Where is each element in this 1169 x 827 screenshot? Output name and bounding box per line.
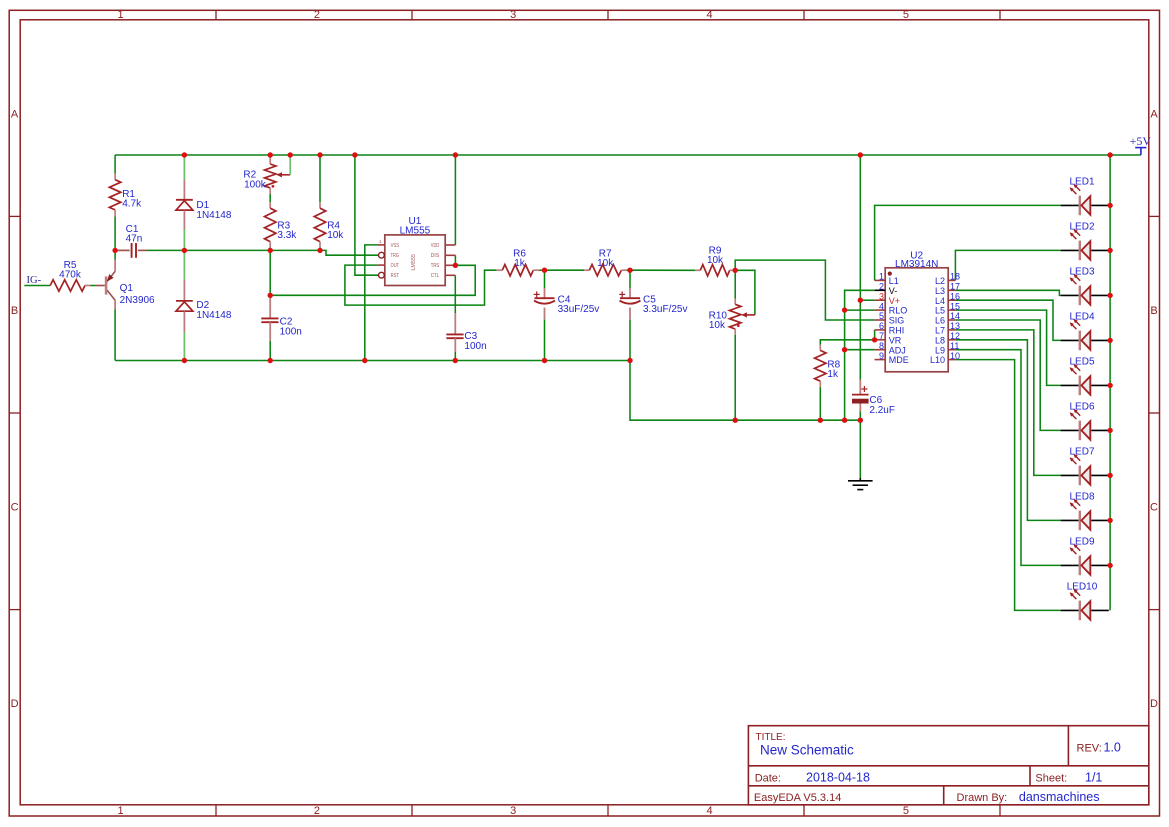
- svg-text:3: 3: [879, 291, 884, 301]
- svg-text:100k: 100k: [244, 179, 267, 190]
- svg-text:2018-04-18: 2018-04-18: [806, 770, 870, 784]
- svg-text:dansmachines: dansmachines: [1019, 790, 1100, 804]
- wire R2 wiper to rail: [289, 155, 291, 175]
- svg-text:L1: L1: [889, 276, 899, 286]
- svg-text:RST: RST: [391, 273, 400, 279]
- svg-text:Sheet:: Sheet:: [1035, 772, 1067, 784]
- svg-text:1k: 1k: [827, 369, 839, 380]
- wire R9 node down to R10: [734, 270, 736, 298]
- svg-text:L10: L10: [930, 355, 945, 365]
- svg-text:470k: 470k: [59, 270, 82, 281]
- wire R6 to C4 node: [539, 269, 544, 271]
- wire R8 bottom to gnd rail: [819, 387, 821, 420]
- wire C5 node to R9: [630, 269, 695, 271]
- wire C2 bottom to gnd rail: [269, 341, 271, 361]
- ground: [848, 478, 873, 490]
- svg-text:EasyEDA V5.3.14: EasyEDA V5.3.14: [754, 792, 841, 804]
- capacitor C3: [446, 313, 486, 352]
- svg-text:2: 2: [314, 805, 320, 817]
- wire +5V top rail: [115, 154, 1141, 156]
- svg-text:2: 2: [314, 9, 320, 21]
- wire R4 top from rail: [319, 155, 321, 202]
- wire C5 bottom to gnd rail: [629, 320, 631, 361]
- LED LED5: [1061, 356, 1109, 395]
- LED LED4: [1061, 311, 1109, 350]
- wire R4 bottom to TRG net: [319, 248, 321, 251]
- svg-text:13: 13: [950, 321, 960, 331]
- svg-text:LED4: LED4: [1069, 311, 1094, 322]
- svg-text:4: 4: [879, 301, 884, 311]
- svg-text:V+: V+: [889, 296, 900, 306]
- svg-text:LM3914N: LM3914N: [895, 259, 938, 270]
- wire L10 to LED10: [955, 360, 1060, 611]
- potentiometer R2 100k: [243, 157, 290, 195]
- svg-text:VR: VR: [889, 335, 902, 345]
- wire L2 to LED2: [955, 250, 1060, 280]
- LED LED2: [1061, 221, 1109, 260]
- svg-text:18: 18: [950, 272, 960, 282]
- svg-text:C: C: [11, 502, 19, 514]
- svg-text:ADJ: ADJ: [889, 345, 906, 355]
- svg-text:OUT: OUT: [391, 263, 400, 269]
- svg-text:10k: 10k: [709, 320, 726, 331]
- svg-text:VSS: VSS: [391, 243, 399, 249]
- svg-text:16: 16: [950, 291, 960, 301]
- wire R7 to C5 node: [627, 269, 630, 271]
- svg-text:LED1: LED1: [1069, 176, 1094, 187]
- potentiometer R10 10k: [709, 299, 755, 335]
- svg-text:4.7k: 4.7k: [122, 199, 142, 210]
- svg-text:TITLE:: TITLE:: [756, 732, 786, 743]
- svg-text:10: 10: [950, 351, 960, 361]
- svg-text:Q1: Q1: [120, 283, 134, 294]
- resistor R5: [50, 260, 90, 291]
- svg-text:LM555: LM555: [400, 226, 431, 237]
- svg-text:IG-: IG-: [27, 275, 42, 286]
- capacitor C5: [619, 270, 687, 319]
- svg-text:D: D: [11, 698, 19, 710]
- wire L4 to LED4: [955, 300, 1060, 340]
- wire VSS to gnd rail: [365, 245, 378, 361]
- svg-text:L6: L6: [935, 316, 945, 326]
- svg-text:LED6: LED6: [1069, 401, 1094, 412]
- diode D1 1N4148: [176, 157, 232, 251]
- svg-text:L7: L7: [935, 326, 945, 336]
- ic U2 LM3914N: [875, 250, 960, 372]
- svg-text:LM555: LM555: [411, 254, 417, 271]
- svg-text:6: 6: [879, 321, 884, 331]
- ic U1 LM555: [377, 216, 455, 286]
- svg-text:4: 4: [707, 9, 713, 21]
- svg-text:LED8: LED8: [1069, 491, 1094, 502]
- svg-text:5: 5: [903, 9, 909, 21]
- svg-text:New Schematic: New Schematic: [760, 743, 854, 758]
- wire TRG jog: [320, 250, 378, 255]
- svg-text:1: 1: [379, 239, 382, 244]
- wire L1 to LED1: [875, 205, 1061, 280]
- wire Q1 collector to gnd rail: [114, 310, 116, 361]
- svg-text:100n: 100n: [280, 326, 302, 337]
- wire IG- to R5: [24, 285, 50, 287]
- svg-text:17: 17: [950, 282, 960, 292]
- svg-text:1/1: 1/1: [1085, 770, 1102, 784]
- svg-text:10k: 10k: [707, 255, 724, 266]
- wire R3 bottom to TRG net: [269, 248, 271, 251]
- svg-text:CTL: CTL: [431, 273, 440, 279]
- svg-text:D: D: [1150, 698, 1158, 710]
- wire L9 to LED9: [955, 350, 1060, 566]
- capacitor C4: [534, 270, 600, 319]
- svg-text:LED9: LED9: [1069, 536, 1094, 547]
- svg-text:A: A: [11, 108, 19, 120]
- wire L7 to LED7: [955, 330, 1060, 476]
- resistor R1: [109, 174, 142, 217]
- svg-text:Date:: Date:: [755, 772, 781, 784]
- capacitor C6 2.2uF: [852, 380, 895, 416]
- resistor R4: [314, 202, 344, 247]
- transistor Q1 2N3906: [96, 260, 155, 310]
- svg-text:L4: L4: [935, 296, 945, 306]
- svg-text:RHI: RHI: [889, 326, 905, 336]
- svg-text:5: 5: [879, 311, 884, 321]
- wire TRS node to R3/C2 node: [270, 265, 475, 295]
- svg-text:L2: L2: [935, 276, 945, 286]
- svg-text:V-: V-: [889, 286, 898, 296]
- svg-text:VDD: VDD: [431, 243, 439, 249]
- svg-text:10k: 10k: [327, 230, 344, 241]
- wire R1 bottom to C1 node: [114, 217, 116, 251]
- svg-text:B: B: [1150, 305, 1157, 317]
- wire V+ rail to U2 and C6: [859, 155, 861, 380]
- LED LED6: [1061, 401, 1109, 440]
- LED LED10: [1061, 581, 1109, 620]
- wire C3 bottom to gnd rail: [454, 352, 456, 361]
- svg-text:8: 8: [879, 341, 884, 351]
- svg-text:1k: 1k: [514, 258, 526, 269]
- wire gnd rail to ground: [859, 420, 861, 478]
- title block: [748, 726, 1148, 805]
- wire RST to rail: [355, 155, 378, 275]
- svg-text:33uF/25v: 33uF/25v: [558, 304, 600, 315]
- svg-text:L3: L3: [935, 286, 945, 296]
- svg-text:47n: 47n: [126, 234, 143, 245]
- svg-text:L8: L8: [935, 335, 945, 345]
- svg-text:L5: L5: [935, 306, 945, 316]
- svg-text:LED7: LED7: [1069, 446, 1094, 457]
- wire R3 node down to C2/TRS node: [269, 250, 271, 295]
- svg-text:2: 2: [879, 282, 884, 292]
- svg-text:LED5: LED5: [1069, 356, 1094, 367]
- svg-text:LED2: LED2: [1069, 221, 1094, 232]
- wire C1 to R4 bottom / TRG net: [147, 249, 321, 251]
- wire LED anode +5V column: [1109, 155, 1111, 610]
- svg-text:REV:: REV:: [1077, 743, 1102, 755]
- svg-text:1N4148: 1N4148: [196, 310, 231, 321]
- svg-text:100n: 100n: [464, 341, 486, 352]
- svg-text:3.3k: 3.3k: [277, 230, 297, 241]
- wire ADJ pin link: [845, 349, 875, 351]
- wire R10 bottom to gnd rail: [734, 335, 736, 420]
- svg-text:C: C: [1150, 502, 1158, 514]
- wire V- net down: [845, 290, 875, 420]
- svg-text:1: 1: [118, 805, 124, 817]
- svg-text:TRS: TRS: [431, 263, 439, 269]
- svg-text:3: 3: [510, 805, 516, 817]
- svg-text:15: 15: [950, 301, 960, 311]
- wire C4 node to R7: [545, 269, 585, 271]
- resistor R9: [695, 246, 735, 276]
- svg-text:11: 11: [950, 341, 959, 351]
- resistor R6: [496, 248, 539, 276]
- diode D2 1N4148: [176, 250, 232, 360]
- svg-text:1.0: 1.0: [1104, 741, 1121, 755]
- svg-text:12: 12: [950, 331, 960, 341]
- wire C4 bottom to gnd rail: [544, 320, 546, 361]
- svg-text:3.3uF/25v: 3.3uF/25v: [643, 304, 687, 315]
- svg-text:A: A: [1150, 108, 1158, 120]
- LED LED9: [1061, 536, 1109, 575]
- wire L8 to LED8: [955, 340, 1060, 521]
- wire R1 top from rail: [114, 155, 116, 174]
- svg-text:DIS: DIS: [431, 253, 440, 259]
- capacitor C2: [261, 295, 302, 341]
- resistor R3: [265, 202, 298, 247]
- LED LED8: [1061, 491, 1109, 530]
- svg-text:L9: L9: [935, 345, 945, 355]
- svg-text:5: 5: [903, 805, 909, 817]
- svg-text:1: 1: [118, 9, 124, 21]
- svg-text:14: 14: [950, 311, 960, 321]
- LED LED7: [1061, 446, 1109, 485]
- wire RHI to VR net: [874, 330, 876, 340]
- svg-text:10k: 10k: [597, 258, 614, 269]
- svg-text:MDE: MDE: [889, 355, 909, 365]
- wire R10 wiper link: [735, 270, 755, 315]
- svg-text:4: 4: [707, 805, 713, 817]
- wire C6 bottom to gnd rail: [859, 412, 861, 421]
- resistor R8: [815, 345, 841, 388]
- svg-text:TRG: TRG: [391, 253, 400, 259]
- wire VR net to R8 top: [820, 340, 874, 345]
- svg-text:7: 7: [879, 331, 884, 341]
- wire OUT to R6: [345, 265, 497, 305]
- wire CTL down to C3: [454, 275, 456, 313]
- wire RLO pin link: [845, 309, 875, 311]
- LED LED3: [1061, 266, 1109, 305]
- wire V+ pin link: [860, 299, 874, 301]
- power flag +5V: [1130, 134, 1152, 155]
- svg-text:B: B: [11, 305, 18, 317]
- svg-text:9: 9: [879, 351, 884, 361]
- svg-text:SIG: SIG: [889, 316, 905, 326]
- svg-text:1: 1: [879, 272, 884, 282]
- wire L5 to LED5: [955, 310, 1060, 385]
- svg-text:2N3906: 2N3906: [120, 295, 155, 306]
- svg-text:LED3: LED3: [1069, 266, 1094, 277]
- wire L6 to LED6: [955, 320, 1060, 430]
- wire bottom gnd rail: [115, 360, 630, 362]
- wire SIG net R9 node to U2 SIG: [735, 260, 874, 320]
- wire L3 to LED3: [955, 290, 1060, 295]
- resistor R7: [584, 248, 627, 276]
- capacitor C1: [115, 224, 146, 258]
- wire VDD to rail: [454, 155, 456, 245]
- wire emitter node down to Q1: [114, 250, 116, 259]
- wire R5 to Q1 base: [90, 285, 96, 287]
- svg-text:LED10: LED10: [1067, 581, 1098, 592]
- svg-text:2.2uF: 2.2uF: [869, 405, 895, 416]
- wire gnd rail drop to lower rail: [630, 361, 860, 421]
- svg-text:1N4148: 1N4148: [196, 210, 231, 221]
- svg-text:+5V: +5V: [1130, 134, 1152, 148]
- LED LED1: [1061, 176, 1109, 215]
- svg-text:RLO: RLO: [889, 306, 908, 316]
- wire DIS to TRS node: [454, 255, 456, 265]
- svg-text:Drawn By:: Drawn By:: [957, 792, 1008, 804]
- wire R2 bottom to R3 top: [269, 194, 271, 202]
- svg-text:3: 3: [510, 9, 516, 21]
